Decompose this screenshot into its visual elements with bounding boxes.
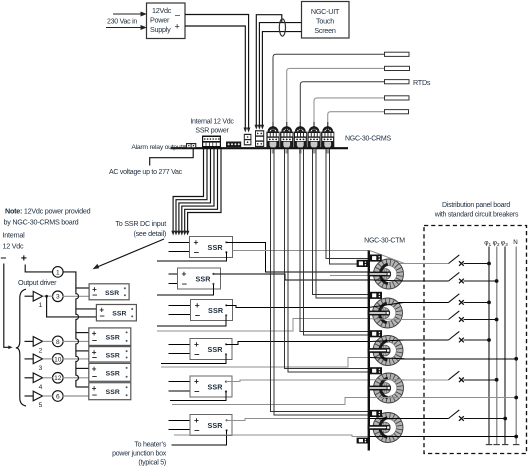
svg-text:–: – [175, 10, 180, 20]
svg-text:–: – [92, 352, 97, 362]
svg-text:To SSR DC input: To SSR DC input [115, 219, 166, 228]
wire driver 5 input [25, 395, 34, 397]
wire SSR M2 minus stub [169, 282, 178, 284]
svg-text:SSR: SSR [105, 290, 119, 297]
wire arrow 230Vac lower [106, 26, 146, 30]
svg-text:12: 12 [54, 375, 62, 382]
RTD probe 5 [385, 110, 409, 114]
svg-text:4: 4 [39, 384, 43, 391]
wire plus bus branch 1 [76, 287, 89, 289]
wire CT5 signal pair [271, 149, 370, 412]
NGC-30-CTM mounting bar [368, 251, 370, 451]
SSR M3 box [191, 300, 233, 321]
wire M5 AC out to CT4 [226, 380, 370, 382]
wire minus bus [4, 264, 9, 348]
svg-text:(see detail): (see detail) [133, 229, 166, 238]
wire driver 3 input [25, 358, 34, 360]
output driver buffer 5 [33, 391, 42, 409]
SSR L1 detail box [89, 284, 129, 300]
svg-text:230 Vac in: 230 Vac in [107, 19, 137, 26]
node terminal 12 [53, 373, 64, 384]
wire plus bus vertical [63, 272, 79, 387]
SSR L6 detail box [89, 383, 131, 400]
wire driver 4 output [43, 377, 53, 379]
svg-text:–: – [194, 424, 199, 435]
SSR L5 detail box [89, 363, 131, 381]
svg-text:N: N [513, 239, 517, 246]
wire SSR power feed 5 [185, 149, 218, 232]
svg-text:+: + [175, 22, 180, 32]
output driver buffer 3 [33, 354, 42, 372]
svg-text:Touch: Touch [316, 17, 334, 26]
power supply PS1 12Vdc [147, 3, 186, 39]
wire c3 heater return [161, 358, 370, 368]
RTD connector module 5 [321, 122, 334, 147]
wire M4 AC out to CT3 [226, 342, 370, 345]
wire M1 to heater [157, 252, 226, 261]
current transformer CT5 toroid [368, 413, 405, 443]
wire M5 to heater [170, 390, 226, 400]
wire SSR M4 minus stub [169, 353, 191, 355]
wire M2 to heater [157, 285, 213, 295]
CT4 connector block [370, 367, 382, 374]
svg-text:SSR: SSR [106, 389, 120, 396]
wire driver 1 output junction [43, 295, 53, 297]
wire c2 heater return [157, 319, 370, 331]
svg-text:–: – [195, 309, 200, 320]
svg-text:SSR power: SSR power [195, 128, 229, 135]
current transformer CT3 toroid [368, 336, 405, 366]
wire neutral row R8 [389, 397, 517, 399]
svg-text:2: 2 [39, 347, 43, 354]
wire terminal 3 to SSR minus [63, 295, 89, 297]
CT1 connector block right [370, 255, 382, 262]
svg-text:with standard circuit breakers: with standard circuit breakers [434, 211, 519, 218]
wire SSR M4 plus stub [169, 343, 191, 345]
svg-text:SSR: SSR [208, 306, 224, 315]
wire plus bus branch 2 [76, 308, 97, 310]
wire neutral row R10 [389, 436, 517, 438]
RTD probe 4 [385, 96, 410, 100]
wire arrow 230Vac upper [113, 12, 146, 16]
wire circuit row R2 [389, 280, 449, 282]
svg-text:Distribution panel board: Distribution panel board [442, 202, 510, 209]
current transformer CT1 toroid [368, 251, 405, 289]
output driver buffer 4 [33, 373, 42, 391]
svg-text:Screen: Screen [314, 26, 336, 35]
wire junction to SSR L2 minus [47, 296, 97, 317]
wire circuit row R5 [389, 339, 449, 341]
svg-text:3: 3 [56, 294, 60, 301]
wire SSR M5 plus stub [169, 381, 191, 383]
wire M4 to heater [161, 354, 226, 363]
SSR M5 box [190, 376, 232, 397]
svg-text:NGC-UIT: NGC-UIT [311, 7, 340, 16]
output driver buffer 1 [33, 291, 42, 309]
node terminal 1 [53, 267, 64, 278]
NGC-30-CRMS board [171, 147, 349, 149]
wire CT4 signal pair [285, 149, 370, 369]
wire alarm to AC label [150, 148, 194, 165]
breaker on R3 [449, 294, 460, 303]
wire SSR power feed 2 [176, 149, 207, 232]
breaker on R2 [449, 272, 460, 281]
wire terminal 10 to SSR minus [63, 358, 89, 360]
wire plus to terminal 1 [25, 265, 53, 272]
svg-text:5: 5 [39, 402, 43, 409]
svg-text:SSR: SSR [207, 345, 223, 354]
wire plus bus branch 6 [76, 386, 89, 388]
svg-text:–: – [92, 335, 97, 345]
svg-text:RTDs: RTDs [413, 78, 431, 87]
svg-text:SSR: SSR [106, 370, 120, 377]
wire circuit row R3 [389, 301, 449, 303]
distribution panel dashed border [424, 226, 527, 454]
svg-text:–: – [194, 246, 199, 257]
wire SSR M1 plus stub [169, 241, 190, 243]
current transformer CT4 toroid [368, 373, 405, 403]
wire SSR M6 minus stub [169, 429, 191, 431]
svg-text:Alarm relay output: Alarm relay output [131, 144, 182, 151]
RTD wire 3 [300, 82, 384, 124]
wire driver 2 output [43, 340, 53, 342]
bus phi1 [488, 247, 490, 445]
svg-text:To heater’s: To heater’s [134, 442, 166, 449]
wire c1 return gray lower [330, 274, 370, 276]
breaker on R5 [449, 331, 460, 340]
wire circuit row R4 [389, 319, 449, 321]
svg-text:–: – [92, 371, 97, 381]
wire terminal 6 to SSR minus [63, 395, 89, 397]
RTD module 2 plug stub [285, 149, 288, 153]
RTD wire 2 [287, 68, 385, 124]
breaker on R1 [449, 255, 460, 264]
node terminal 3 [53, 291, 64, 302]
svg-text:–: – [194, 348, 199, 359]
svg-text:power junction box: power junction box [112, 451, 167, 458]
wire PSU minus to board 12V terminal [185, 15, 249, 129]
svg-text:Output driver: Output driver [18, 278, 57, 287]
wire driver 3 output [43, 358, 53, 360]
svg-text:Supply: Supply [150, 25, 171, 34]
svg-text:3: 3 [39, 365, 43, 372]
RTD module 1 plug stub [272, 149, 275, 153]
wire terminal 8 to SSR minus [63, 340, 89, 342]
svg-text:SSR: SSR [106, 335, 120, 342]
RTD wire 5 [328, 112, 385, 124]
wire SSR M1 minus stub [169, 251, 190, 253]
RTD wire 4 [314, 98, 385, 124]
svg-text:–: – [92, 290, 97, 300]
RTD probe 3 [385, 80, 410, 84]
breaker on R4 [449, 311, 460, 320]
wire M3 AC out to CT2 [226, 305, 369, 307]
wire comm C board to touch screen [262, 32, 301, 126]
RTD connector module 4 [307, 122, 320, 147]
wire c4 heater return [172, 398, 370, 405]
wire SSR M3 plus stub [169, 304, 191, 306]
svg-text:–: – [194, 385, 199, 396]
wire terminal 12 to SSR minus [63, 377, 89, 379]
wire SSR power feed 3 [179, 149, 211, 232]
arrow to SSR detail [96, 239, 164, 268]
touch screen U2 NGC-UIT [302, 2, 350, 39]
SSR M4 box [190, 339, 232, 360]
SSR L4 detail box [89, 347, 131, 362]
SSR L2 detail box [96, 305, 136, 321]
wire c5 heater return [174, 435, 370, 437]
CT5 connector block left [357, 438, 368, 444]
svg-text:SSR: SSR [207, 421, 223, 430]
wire neutral row R6 [389, 358, 517, 360]
wire driver 4 input [25, 377, 34, 379]
wire driver 1 input [25, 295, 34, 297]
svg-text:1: 1 [39, 302, 43, 309]
svg-text:NGC-30-CRMS: NGC-30-CRMS [345, 136, 391, 143]
breaker on R7 [449, 371, 460, 380]
wire SSR power feed 1 [173, 149, 203, 232]
svg-text:–: – [100, 311, 105, 321]
wire SSR M5 minus stub [169, 390, 191, 392]
wire circuit row R9 [389, 418, 449, 420]
svg-text:by NGC-30-CRMS board: by NGC-30-CRMS board [4, 218, 79, 227]
wire comm A board to touch screen [256, 15, 282, 126]
wire SSR power feed 4 [182, 149, 214, 232]
wire driver 2 input [25, 340, 34, 342]
wire SSR power feed 6 [188, 149, 221, 232]
wire M1 AC out to CT1 [226, 242, 369, 272]
svg-text:–: – [92, 390, 97, 400]
SSR M2 box [178, 268, 221, 289]
RTD connector module 1 [266, 122, 279, 147]
wire driver 5 output [43, 395, 53, 397]
svg-text:(typical 5): (typical 5) [138, 460, 166, 467]
node terminal 6 [53, 391, 64, 402]
wire M6 to heater [172, 430, 227, 445]
SSR M1 box [190, 237, 233, 258]
wire circuit row R1 [389, 263, 449, 265]
wire CT2 signal pair [313, 149, 370, 295]
wire SSR M6 plus stub [169, 419, 191, 421]
SSR power terminal block [202, 136, 221, 148]
wire CT3 signal pair [300, 149, 370, 332]
CT1 connector block left [357, 260, 368, 267]
wire SSR M2 plus stub [169, 273, 178, 275]
wire CT1 signal pair [326, 149, 370, 259]
RTD probe 1 [385, 52, 410, 56]
wire circuit row R7 [389, 379, 449, 381]
wire plus bus branch 4 [76, 350, 89, 352]
wire plus bus branch 5 [76, 367, 89, 369]
svg-text:8: 8 [56, 339, 60, 346]
wire M6 AC out to CT5 [227, 419, 370, 421]
svg-text:–: – [182, 278, 187, 289]
RTD connector module 2 [280, 122, 293, 147]
wire PSU plus to board 12V terminal [185, 26, 245, 129]
SSR M6 box [190, 415, 232, 436]
SSR L3 detail box [89, 328, 131, 346]
ferrite loop on comm wires [279, 19, 285, 36]
RTD connector module 3 [294, 122, 307, 147]
node terminal 8 [53, 336, 64, 347]
svg-text:12 Vdc: 12 Vdc [3, 242, 25, 251]
wire M3 to heater [157, 315, 226, 326]
svg-text:1: 1 [56, 269, 60, 276]
svg-text:Internal 12 Vdc: Internal 12 Vdc [190, 119, 234, 126]
CT5 connector block right [370, 410, 382, 417]
svg-text:Power: Power [150, 16, 170, 25]
svg-text:Note: 12Vdc power provided: Note: 12Vdc power provided [5, 207, 91, 216]
CT2 connector block [370, 292, 382, 299]
svg-text:+: + [21, 253, 27, 265]
svg-text:12Vdc: 12Vdc [152, 6, 172, 15]
svg-text:AC voltage up to 277 Vac: AC voltage up to 277 Vac [109, 169, 183, 176]
wire comm B board to touch screen [259, 23, 301, 126]
output driver buffer 2 [33, 337, 42, 355]
svg-text:NGC-30-CTM: NGC-30-CTM [364, 238, 405, 245]
node terminal 10 [53, 354, 64, 365]
wire plus bus branch 3 [76, 332, 89, 334]
breaker on R9 [449, 410, 460, 419]
RTD module 4 plug stub [313, 149, 316, 153]
bus phi3 [504, 247, 506, 445]
svg-text:Internal: Internal [3, 231, 26, 240]
wire c1 return gray upper [233, 250, 370, 252]
RTD wire 1 [273, 54, 385, 124]
svg-text:10: 10 [54, 356, 62, 363]
12Vdc input terminal block [244, 134, 252, 146]
bus N [515, 247, 517, 445]
svg-text:SSR: SSR [208, 243, 224, 252]
RTD module 3 plug stub [299, 149, 302, 153]
RTD probe 2 [385, 66, 410, 70]
current transformer CT2 toroid [368, 298, 405, 328]
RTD module 5 plug stub [326, 149, 329, 153]
dark connector block [226, 142, 241, 148]
bus phi2 [496, 247, 498, 445]
wire M2 AC out to CT1 [213, 274, 369, 280]
svg-text:SSR: SSR [195, 275, 211, 284]
svg-text:6: 6 [56, 393, 60, 400]
alarm relay terminal block [183, 145, 187, 147]
svg-text:SSR: SSR [106, 352, 120, 359]
wire SSR M3 minus stub [169, 314, 191, 316]
svg-text:–: – [1, 252, 7, 264]
svg-text:SSR: SSR [112, 311, 126, 318]
comm terminal block [255, 130, 264, 147]
CT3 connector block [370, 330, 382, 337]
brace grouping drivers [16, 289, 26, 406]
svg-text:SSR: SSR [207, 382, 223, 391]
